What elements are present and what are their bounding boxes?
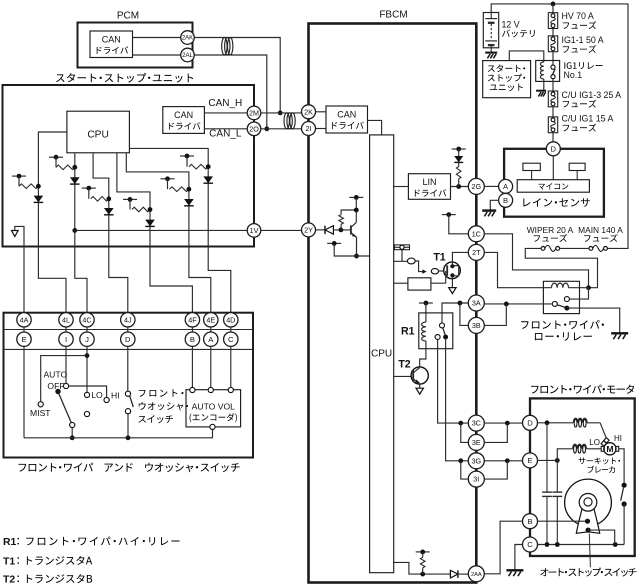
fuse WIPER 20A <box>545 245 556 251</box>
breaker contact upper <box>622 483 627 488</box>
svg-text:2O: 2O <box>249 124 259 133</box>
contact cam C <box>586 528 591 533</box>
resistor R5 <box>420 557 425 567</box>
svg-text:4E: 4E <box>206 315 215 324</box>
svg-text:FBCM: FBCM <box>379 10 407 21</box>
svg-text:CAN_H: CAN_H <box>208 98 242 109</box>
CAN driver U10 box <box>90 31 133 58</box>
wire 1C to relay node <box>484 234 588 288</box>
wire pin I to switch common <box>65 346 67 383</box>
contact encoder C <box>228 387 233 392</box>
transistor T1 MOSFET <box>444 262 461 279</box>
wire emitter rail to CPU <box>334 243 369 256</box>
wire 3C to D motor <box>485 422 523 424</box>
wire E to LO coil <box>557 449 572 461</box>
svg-text:D: D <box>125 335 131 344</box>
diode D7 at 2Y <box>325 226 333 234</box>
svg-text:1V: 1V <box>250 226 259 235</box>
contact R1 NC <box>435 335 440 340</box>
resistor R3 pullup <box>456 167 461 179</box>
wiper washer switch box <box>4 313 254 458</box>
rain sensor label <box>523 199 530 207</box>
svg-text:4A: 4A <box>20 315 29 324</box>
wire 3C to 3E link <box>461 423 469 442</box>
resistor net5 <box>170 187 189 192</box>
svg-text:CPU: CPU <box>371 349 392 360</box>
fuse C/U IG1-3 25A <box>548 91 557 107</box>
sensor element 1 <box>523 163 540 170</box>
junction 3A3B ext <box>504 302 509 307</box>
wire tap to collector <box>355 197 357 222</box>
wire cam C to bus <box>588 530 615 544</box>
resistor net2 <box>56 165 75 170</box>
connector divider line 1 <box>4 329 254 331</box>
wire 3B parallel link <box>484 304 506 326</box>
svg-text:D: D <box>551 145 557 154</box>
svg-text:4C: 4C <box>82 315 91 324</box>
switch pivot OFF <box>55 389 60 394</box>
junction net1 <box>36 184 41 189</box>
svg-text:HI: HI <box>614 434 622 443</box>
wire C to ground <box>515 545 523 571</box>
wire NO to supply <box>569 288 588 299</box>
svg-text:HV 70 A: HV 70 A <box>562 11 594 21</box>
wire 4D to C <box>230 327 232 332</box>
ground IG1 coil <box>536 90 546 92</box>
svg-text:3C: 3C <box>472 419 481 428</box>
IG1 relay label <box>563 62 566 68</box>
wire common to 3A <box>484 303 552 305</box>
svg-text:3A: 3A <box>472 299 481 308</box>
microcomputer box <box>517 180 589 193</box>
pin 3G <box>468 453 484 469</box>
wire CPU pin to net2 <box>74 153 76 247</box>
relay R1 coil <box>422 322 426 341</box>
pin 1V <box>247 224 261 238</box>
wire E to 4A <box>23 247 25 313</box>
wire WIPER fuse to relay <box>525 248 597 287</box>
LIN driver U3 box <box>408 174 450 200</box>
auto stop label <box>540 568 548 576</box>
node tap net5 <box>161 178 175 180</box>
cam head inner <box>584 498 592 506</box>
pin 2K <box>302 105 316 119</box>
wire oval1 to arrow <box>415 261 422 272</box>
wire resistor top <box>341 210 356 230</box>
wire pin J down <box>86 346 88 392</box>
connector divider line 2 <box>4 348 254 350</box>
resistor R2 base <box>339 215 344 225</box>
pin C <box>224 332 238 346</box>
svg-text:D: D <box>527 419 533 428</box>
svg-text:AUTO: AUTO <box>43 369 67 379</box>
wire E internal <box>538 459 558 461</box>
resistor R4 box <box>408 278 431 290</box>
junction base node <box>339 228 344 233</box>
node tap output <box>416 551 430 553</box>
diode D1 net1 <box>34 196 44 203</box>
junction 3A node <box>458 301 463 306</box>
wire CPU pin to net4 <box>117 153 150 247</box>
ground rain sensor <box>482 209 496 211</box>
pin 4A <box>17 313 31 327</box>
breaker contact lower <box>622 501 627 506</box>
battery B1 box <box>483 13 498 48</box>
wire 2G to A <box>484 185 498 187</box>
pin 3I <box>468 471 484 487</box>
arrow into oval2 <box>422 269 426 273</box>
pin 2T <box>468 244 484 260</box>
wire CPU to R4 <box>394 282 408 284</box>
svg-text:CPU: CPU <box>87 130 109 141</box>
rain sensor box <box>504 149 604 217</box>
svg-text:1C: 1C <box>472 229 481 238</box>
wire battery to ground <box>490 48 492 53</box>
svg-text:2AK: 2AK <box>182 36 193 42</box>
wire pin D to washer switch <box>127 346 129 391</box>
pin B motor <box>523 514 538 529</box>
wire J to MIST contact <box>41 356 87 402</box>
low relay label <box>521 321 529 329</box>
node tap 1C <box>442 214 456 216</box>
CPU U11 box <box>67 111 129 153</box>
svg-text:2T: 2T <box>472 248 481 257</box>
wire lever to bus <box>71 428 73 438</box>
wire D to HI coil <box>538 422 574 424</box>
svg-text:AUTO VOL: AUTO VOL <box>192 402 236 412</box>
wire pin A to encoder <box>210 346 212 387</box>
pin 3C <box>468 415 484 431</box>
svg-text:2G: 2G <box>472 182 482 191</box>
svg-text:E: E <box>527 456 532 465</box>
svg-text:T1: T1 <box>3 556 15 567</box>
ground battery <box>485 52 497 54</box>
svg-text:2K: 2K <box>304 107 313 116</box>
junction on CAN_L <box>264 126 269 131</box>
wire 2AK to CAN bus junction <box>195 38 281 113</box>
contact R1 NO <box>443 335 448 340</box>
svg-text:T1: T1 <box>433 251 445 263</box>
wire net3 to 4J <box>109 247 128 313</box>
wire HV to IG1-1 <box>552 29 554 36</box>
wire relay to CU IG1-3 <box>552 79 554 91</box>
contact low out <box>564 306 569 311</box>
svg-text:4F: 4F <box>188 315 197 324</box>
wire 2I to CAN driver <box>316 128 326 130</box>
junction relay supply <box>586 285 591 290</box>
oval component 1 <box>407 258 415 264</box>
wire net4 tap stem <box>129 199 131 209</box>
transistor Q1 <box>350 225 352 234</box>
PCM box <box>78 23 193 68</box>
node tap net4 <box>123 198 137 200</box>
contact LO upper <box>84 392 89 397</box>
node tap net1 <box>12 175 26 177</box>
wire 3A to 3B link <box>460 303 468 325</box>
wire between fuses <box>560 247 589 249</box>
junction emitter node <box>354 254 359 259</box>
capacitor C2 <box>556 460 558 492</box>
junction 2G node <box>456 184 461 189</box>
svg-text:IG1-1 50 A: IG1-1 50 A <box>562 35 604 45</box>
battery plates <box>490 13 492 19</box>
wire net5 to 4E <box>189 247 211 313</box>
wire 2Y to diode <box>316 229 325 231</box>
wire CPU right pin to net6 <box>129 148 208 246</box>
wire 2AA to B motor <box>484 521 522 574</box>
wire T1 source to ground <box>451 275 453 287</box>
wire C bus <box>538 544 625 546</box>
wire CAN driver to 2AK <box>133 37 181 39</box>
svg-text:B: B <box>503 196 508 205</box>
wire 4J to D <box>127 327 129 332</box>
wire CAN driver to CPU <box>368 120 382 134</box>
contact HI <box>104 397 109 402</box>
pin J <box>80 332 94 346</box>
wire D to microcomputer <box>552 156 554 180</box>
wire 2AL to CAN bus junction <box>195 55 267 129</box>
junction net4 <box>148 207 153 212</box>
ground low relay <box>611 332 628 334</box>
pin 2O <box>247 122 261 136</box>
wire tap to resistor <box>422 552 424 574</box>
contact washer upper <box>125 391 130 396</box>
wire CAN driver to 2M <box>204 112 246 114</box>
pin 1C <box>468 226 484 242</box>
wire B to ground <box>490 200 498 210</box>
junction 3G node <box>458 458 463 463</box>
pin 4L <box>59 313 73 327</box>
diode D8 pullup <box>454 156 463 162</box>
svg-text:E: E <box>21 335 26 344</box>
LO field coil L2 <box>573 444 587 449</box>
junction net5 <box>187 187 192 192</box>
svg-text:3G: 3G <box>472 456 482 465</box>
contact cam B <box>585 519 590 524</box>
contact switch common OFF <box>63 383 68 388</box>
svg-text:I: I <box>65 335 67 344</box>
junction bus left <box>70 435 75 440</box>
bus wire <box>24 430 213 438</box>
wire net1 tap stem <box>18 176 20 186</box>
twisted pair PCM <box>222 38 227 55</box>
svg-text:LIN: LIN <box>422 177 436 187</box>
contact encoder B <box>190 387 195 392</box>
wire 3G to 3I link <box>461 461 469 479</box>
svg-text:MAIN 140 A: MAIN 140 A <box>578 225 623 235</box>
wire R1 NO to 3G <box>446 340 469 461</box>
junction C cap2 <box>555 542 560 547</box>
fuse IG1-1 50A <box>548 36 557 52</box>
svg-text:12 V: 12 V <box>502 19 520 29</box>
contact R1 common <box>440 323 445 328</box>
wire R1 coil to T2 <box>420 341 426 367</box>
wire R1 common to 3A <box>442 303 468 323</box>
wire 4F to B <box>191 327 193 332</box>
wire start-stop to IG1 relay coil <box>509 51 544 62</box>
contact low NO <box>564 297 569 302</box>
wire to CU IG1 fuse <box>552 107 554 117</box>
ground T1 <box>449 288 456 294</box>
svg-text:3E: 3E <box>472 438 481 447</box>
junction E cap <box>555 458 560 463</box>
wire diode to 2AA <box>458 573 468 575</box>
wire net4 to 4F <box>150 247 192 313</box>
switch box label <box>19 464 27 472</box>
wiper motor box <box>530 398 635 556</box>
relay R1 lever <box>443 328 446 336</box>
wire 2K to CAN driver <box>316 111 326 113</box>
contact LO lower <box>84 411 89 416</box>
node tap net3 <box>82 187 96 189</box>
pin 2AK <box>181 31 195 45</box>
svg-text:R1: R1 <box>401 326 415 338</box>
ground motor C <box>506 569 523 571</box>
wire brush to breaker <box>619 449 624 483</box>
wire 1V to 2Y <box>261 229 301 231</box>
pin 3A <box>468 295 484 311</box>
junction D ext <box>505 421 510 426</box>
relay IG1 coil <box>540 62 543 79</box>
auto stop leader line <box>589 534 590 568</box>
wire CPU to LIN driver <box>394 186 409 188</box>
wire LIN driver to 2G <box>451 186 469 188</box>
wire CPU pin to net3 <box>93 153 109 247</box>
junction E ext <box>505 458 510 463</box>
battery top rail <box>491 4 628 249</box>
switch lever <box>59 393 72 422</box>
wire breaker to C wire <box>623 504 625 545</box>
contact low common <box>552 301 557 306</box>
svg-text:2Y: 2Y <box>304 226 313 235</box>
svg-text:CAN_L: CAN_L <box>209 129 242 140</box>
pin 3B <box>468 317 484 333</box>
junction C camplate <box>613 542 618 547</box>
wire 3I parallel link <box>485 461 508 479</box>
CPU U2 strip <box>370 135 394 573</box>
wire fuse to rain sensor D <box>552 133 554 142</box>
CAN driver U1 box <box>326 106 368 133</box>
FBCM box <box>309 24 477 583</box>
start-stop unit ref box <box>483 61 531 98</box>
wire 4A to E <box>23 327 25 332</box>
svg-text:4L: 4L <box>62 315 70 324</box>
wire net2 to 4C <box>75 247 87 313</box>
wire CAN driver to 2AL <box>133 54 181 56</box>
wire gate pulldown <box>431 271 446 283</box>
relay IG1 box <box>536 61 560 82</box>
wire coil to supply <box>569 287 589 289</box>
microcomputer text <box>538 184 544 190</box>
wiper motor label <box>531 386 539 394</box>
cam head outer <box>579 494 597 512</box>
fuse C/U IG1 15A <box>548 117 557 133</box>
IG1 relay lever <box>552 69 555 76</box>
diode D4 net4 <box>145 220 155 227</box>
diode D9 to 2AA <box>450 570 458 578</box>
svg-text:WIPER 20 A: WIPER 20 A <box>527 225 574 235</box>
AUTO VOL encoder box <box>186 390 241 427</box>
wire CPU to T2 base <box>394 375 414 377</box>
svg-text:M: M <box>606 444 613 454</box>
pin 2AA <box>468 566 484 582</box>
svg-text:B: B <box>527 517 532 526</box>
wire tap to R1 coil <box>425 303 427 322</box>
pin 4E <box>204 313 218 327</box>
wire 2T to relay coil <box>484 252 551 287</box>
diode D6 net6 <box>203 176 213 183</box>
node tap net6 <box>180 155 194 157</box>
capacitor C1 <box>546 423 548 492</box>
resistor net1 <box>19 184 38 189</box>
wire 4L to I <box>65 327 67 332</box>
pin D motor <box>523 415 538 430</box>
wire net2 to 1V <box>75 229 247 231</box>
ground start-stop unit <box>12 231 19 237</box>
junction output resistor <box>420 572 425 577</box>
start-stop unit label <box>56 74 65 82</box>
svg-text:No.1: No.1 <box>564 70 583 80</box>
wire 3G to E motor <box>485 460 523 462</box>
pin 2M <box>247 106 261 120</box>
relay R1 box <box>419 313 453 349</box>
pin B <box>185 332 199 346</box>
wire IG1-1 to relay <box>552 52 554 65</box>
wire CPU to output stage <box>394 562 451 574</box>
relay low coil <box>552 283 569 288</box>
start-stop unit box <box>3 85 255 247</box>
wire 2M to 2K <box>261 112 301 114</box>
wire tap to diode <box>458 149 460 156</box>
svg-text:LO: LO <box>589 438 600 447</box>
junction pin J <box>85 353 90 358</box>
cam skirt <box>576 509 599 534</box>
brush HI diamond <box>604 438 609 443</box>
contact MIST <box>38 402 43 407</box>
pin I <box>59 332 73 346</box>
wire IG1 coil to ground <box>543 79 545 91</box>
svg-text:2I: 2I <box>306 124 312 133</box>
fuse MAIN 140A <box>593 245 604 251</box>
svg-text:J: J <box>85 335 89 344</box>
wire CAN driver to 2O <box>204 128 246 130</box>
pin 4F <box>185 313 199 327</box>
wire LO coil to brush <box>586 448 601 450</box>
wire 2O to 2I <box>261 128 301 130</box>
wire washer to bus <box>127 414 129 438</box>
svg-text:R1: R1 <box>3 537 17 548</box>
pin 4J <box>121 313 135 327</box>
svg-text:PCM: PCM <box>117 10 139 21</box>
fuse HV 70A <box>548 13 557 29</box>
svg-text:3B: 3B <box>472 321 481 330</box>
brush LO diamond <box>601 441 606 446</box>
junction net2 to 1V <box>72 228 77 233</box>
junction battery rail <box>551 2 556 7</box>
wire pin C to encoder <box>230 346 232 387</box>
svg-text:HI: HI <box>111 390 120 400</box>
CAN driver U12 box <box>163 107 205 134</box>
wire net6 to 4D <box>208 247 231 313</box>
resistor net4 <box>132 207 150 212</box>
contact washer lower <box>125 409 130 414</box>
transistor T2 <box>411 367 428 384</box>
pin D rain sensor <box>546 142 560 156</box>
junction on CAN_H <box>278 111 283 116</box>
junction bus D column <box>126 435 131 440</box>
svg-text:T2: T2 <box>3 575 15 586</box>
svg-text:CAN: CAN <box>102 35 121 45</box>
